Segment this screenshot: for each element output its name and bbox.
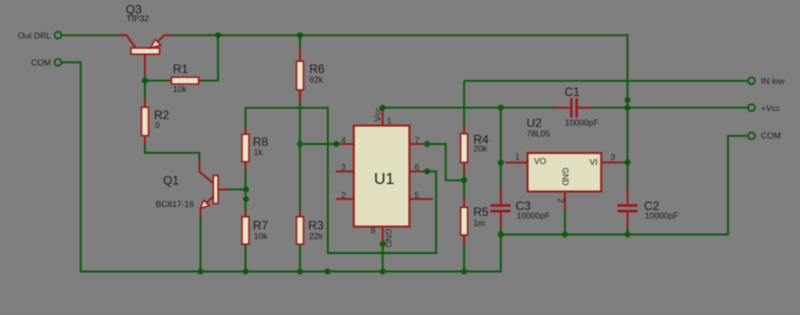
svg-text:10000pF: 10000pF: [565, 118, 599, 128]
svg-text:U1: U1: [374, 171, 395, 188]
svg-text:5: 5: [415, 190, 420, 200]
svg-text:2: 2: [556, 198, 566, 203]
svg-text:VO: VO: [534, 156, 547, 166]
svg-text:22k: 22k: [309, 231, 323, 241]
svg-text:C1: C1: [565, 85, 581, 99]
svg-text:2: 2: [341, 190, 346, 200]
svg-text:1: 1: [515, 152, 520, 162]
svg-text:3: 3: [611, 152, 616, 162]
svg-text:20k: 20k: [473, 144, 487, 154]
svg-text:Vcc: Vcc: [373, 107, 383, 122]
svg-text:TIP32: TIP32: [126, 13, 149, 23]
svg-text:8: 8: [371, 226, 376, 236]
svg-text:R5: R5: [473, 205, 489, 219]
svg-text:BC817-16: BC817-16: [156, 199, 195, 209]
svg-text:62k: 62k: [309, 75, 323, 85]
svg-text:COM: COM: [761, 131, 781, 141]
svg-text:78L05: 78L05: [527, 129, 551, 139]
svg-text:Out DRL: Out DRL: [18, 30, 51, 40]
svg-text:+Vcc: +Vcc: [761, 103, 781, 113]
svg-text:10000pF: 10000pF: [517, 211, 551, 221]
svg-text:10k: 10k: [173, 84, 187, 94]
svg-text:4: 4: [341, 135, 346, 145]
svg-text:GND: GND: [384, 229, 394, 248]
svg-text:VI: VI: [590, 157, 598, 167]
svg-text:GND: GND: [561, 168, 570, 186]
svg-text:10k: 10k: [254, 231, 268, 241]
svg-text:7: 7: [415, 135, 420, 145]
svg-text:1: 1: [387, 116, 392, 126]
svg-text:1k: 1k: [254, 147, 264, 157]
svg-text:10000pF: 10000pF: [645, 211, 679, 221]
svg-text:6: 6: [415, 162, 420, 172]
svg-text:0: 0: [155, 120, 160, 130]
svg-text:3: 3: [341, 162, 346, 172]
svg-text:COM: COM: [31, 57, 51, 67]
svg-text:R1: R1: [173, 62, 189, 76]
svg-text:1m: 1m: [473, 218, 485, 228]
svg-text:IN low: IN low: [761, 76, 785, 86]
svg-text:Q1: Q1: [163, 174, 179, 188]
